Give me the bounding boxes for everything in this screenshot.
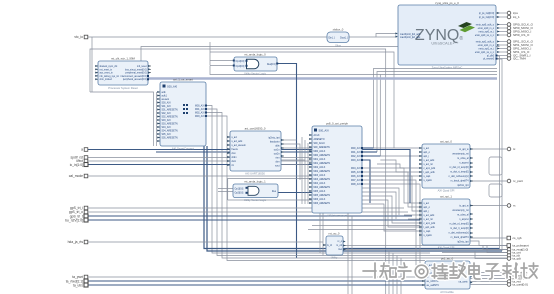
axi-interconnect U ps8_0_axi_periph (309, 122, 363, 218)
svg-text:rx_ttwck_qhw8T4: rx_ttwck_qhw8T4 (451, 236, 470, 239)
axi-uartlite U axi_uartlite_0 (422, 257, 470, 294)
wire interconnect M07 to uartlite (362, 180, 425, 265)
svg-text:M03_AXI: M03_AXI (351, 159, 361, 162)
svg-text:Op2[0:0]: Op2[0:0] (236, 66, 245, 68)
svg-text:S05_ARESETN: S05_ARESETN (162, 137, 179, 140)
wire uart A tx out (470, 148, 507, 150)
wire net sys_clk to ZYNQ maxihpm0_lpd_aclk (88, 36, 397, 38)
port SPI1_SS_O (507, 50, 530, 54)
svg-text:AXI UART16550: AXI UART16550 (245, 172, 265, 176)
svg-text:Utility Vector Logic: Utility Vector Logic (244, 198, 267, 202)
svg-text:emio_spi1_ss_o_n: emio_spi1_ss_o_n (475, 52, 495, 54)
wire port hdmi net (88, 241, 323, 243)
watermark glyph ji (521, 263, 538, 278)
svg-text:UltraSCALE+™: UltraSCALE+™ (431, 41, 458, 46)
svg-text:Op1[0:0]: Op1[0:0] (236, 61, 245, 63)
wire and1 input b (209, 52, 211, 66)
wire interconnect M04 to uart B aclk (362, 168, 422, 203)
wire smc M01_AXI (206, 109, 507, 256)
util-vector-logic U rst_anda_logic_1 (233, 180, 278, 203)
svg-text:s_cgwm: s_cgwm (424, 180, 433, 182)
svg-text:cal_mode: cal_mode (69, 174, 83, 178)
wire port gpio tri_o (88, 211, 408, 213)
svg-text:xlslice_0: xlslice_0 (333, 28, 344, 32)
svg-text:M01_AXI: M01_AXI (195, 108, 205, 111)
wire dark pair lower 1 (204, 146, 500, 249)
svg-text:s_axi_aclk: s_axi_aclk (424, 215, 436, 217)
port cs_rgb (507, 236, 522, 240)
svg-text:M01_ACLK: M01_ACLK (314, 158, 326, 161)
svg-text:ua_uarts: ua_uarts (459, 281, 469, 284)
wire zynq right pin stubs (497, 13, 507, 59)
port uart_irq right (507, 179, 523, 183)
svg-text:M08_AXI: M08_AXI (351, 183, 361, 186)
wire uart16550 to interconnect 1 (281, 147, 312, 149)
wire horizontal interconnect top (209, 42, 211, 52)
svg-text:S00_AXI: S00_AXI (167, 85, 178, 89)
svg-text:Utility: Utility (331, 256, 338, 260)
svg-text:M03_AXI: M03_AXI (195, 115, 205, 118)
wire uart B rx out (470, 205, 507, 207)
svg-text:cs_rgb: cs_rgb (513, 236, 522, 240)
wire port ivect net (88, 160, 312, 162)
wire bottom verticals (389, 251, 401, 294)
svg-text:Dout[..]: Dout[..] (340, 37, 348, 40)
wire B bottom jog 2 (475, 251, 507, 259)
wire port spdif net (88, 157, 312, 159)
wire port cluster feed 2 (487, 245, 507, 253)
svg-text:io_apt_w: io_apt_w (459, 148, 469, 151)
port I2C_SDA (507, 57, 526, 61)
svg-text:M06_ARESETN: M06_ARESETN (314, 202, 331, 205)
port gpio_tri_t (70, 214, 88, 218)
svg-text:M02_AXI: M02_AXI (351, 155, 361, 158)
svg-text:dcm_locked: dcm_locked (100, 79, 113, 81)
svg-text:baudoutn: baudoutn (270, 141, 280, 144)
wire and1 output net (277, 64, 297, 259)
svg-text:Zynq UltraScale+ MPSoC: Zynq UltraScale+ MPSoC (432, 66, 463, 70)
wire port ic_src dark bus (88, 164, 312, 166)
svg-text:n_dwt_nxtboemp[x]: n_dwt_nxtboemp[x] (449, 175, 469, 178)
svg-text:axi_spi_1: axi_spi_1 (440, 195, 452, 199)
pin arrows zynq (395, 12, 499, 53)
svg-text:slowest_sync_clk: slowest_sync_clk (100, 65, 119, 68)
wire stepped net 3 (362, 204, 422, 231)
port cal_mode (69, 174, 88, 178)
wire stepped net 1 (362, 196, 422, 223)
wire and2 input b (218, 191, 248, 193)
wire interconnect M03 (362, 160, 370, 203)
svg-text:n_dwt_nxtboemp[x]: n_dwt_nxtboemp[x] (449, 232, 469, 235)
svg-text:rx_pwrt: rx_pwrt (513, 179, 523, 183)
wire uartlite out 5 (470, 284, 507, 286)
port ja_pcbspwrt (507, 244, 529, 248)
wire B to port jog 1 (470, 241, 507, 246)
watermark glyph ke (503, 263, 518, 278)
svg-text:t_ap1_aclk: t_ap1_aclk (423, 171, 435, 174)
watermark glyph zhi (380, 263, 396, 279)
svg-text:M07_AXI: M07_AXI (351, 179, 361, 182)
svg-text:emio_spi1_sclk_o: emio_spi1_sclk_o (476, 42, 495, 44)
axi-uartlite U axi_uartA (419, 140, 473, 193)
svg-text:S05_AXI: S05_AXI (162, 133, 171, 136)
wire and2 output (278, 192, 312, 194)
svg-text:S02_ARESETN: S02_ARESETN (162, 116, 179, 119)
svg-text:S00_AXI: S00_AXI (162, 102, 171, 105)
port bb5 (507, 283, 528, 287)
wire lower crossing 1 (312, 225, 420, 227)
svg-text:ap1_o: ap1_o (424, 152, 431, 154)
svg-text:S00_ARESETN: S00_ARESETN (314, 146, 331, 149)
svg-text:pl_resetn0: pl_resetn0 (483, 58, 494, 61)
watermark glyph hu (398, 263, 411, 279)
wire dark pair lower 2 (207, 146, 502, 251)
pin arrows interconnect (309, 134, 311, 204)
svg-text:ctsn: ctsn (232, 152, 237, 155)
svg-text:aux_reset_in: aux_reset_in (100, 72, 114, 75)
port spdif_rst (71, 156, 88, 160)
wire port ua_rxd long (88, 280, 425, 282)
port bb1 (507, 271, 527, 275)
port rx right (507, 204, 516, 208)
wire uartlite out 4 (470, 281, 507, 283)
wire port gpio tri_t dark (88, 215, 412, 217)
wire interconnect M01 (362, 151, 377, 153)
wire loop frame B (489, 184, 502, 197)
svg-text:Res[0:0]: Res[0:0] (267, 64, 276, 66)
wire interconnect M09 (362, 188, 399, 215)
svg-text:rx_ttwck_qhw8T4: rx_ttwck_qhw8T4 (451, 180, 470, 183)
svg-text:maxihpm0_lpd_aclk: maxihpm0_lpd_aclk (400, 37, 421, 39)
wire vertical clk feed to rst block (91, 37, 93, 92)
svg-text:rx_dwt_rt_temp[0]: rx_dwt_rt_temp[0] (450, 227, 469, 230)
svg-text:ARESETN: ARESETN (314, 138, 325, 141)
wire peripheral_aresetn thick net (148, 77, 497, 79)
svg-text:emio_spi0_ss_o_n: emio_spi0_ss_o_n (475, 35, 495, 37)
svg-text:S00_AXI: S00_AXI (319, 129, 330, 133)
svg-text:hda_ja_rts: hda_ja_rts (68, 240, 84, 244)
wire port gpio tri_i (88, 207, 404, 209)
svg-text:rs_cdna_al: rs_cdna_al (457, 214, 469, 217)
wire interconnect M05 (362, 172, 422, 207)
wire uart16550 out 2 (281, 144, 300, 180)
svg-text:Utility Vector Logic: Utility Vector Logic (244, 72, 267, 76)
svg-text:emio_spi0_m_o: emio_spi0_m_o (478, 28, 495, 30)
svg-text:s_axi_aclk: s_axi_aclk (424, 160, 436, 162)
svg-text:s_capt: s_capt (424, 230, 431, 233)
util-reduced-logic U rst_au_0 (323, 232, 346, 260)
svg-text:interconnect_aresetn[0:0]: interconnect_aresetn[0:0] (121, 75, 147, 78)
port br2 (507, 251, 521, 255)
wire smc M02_AXI (206, 113, 507, 259)
svg-text:maxihpm0_fpd_aclk: maxihpm0_fpd_aclk (400, 34, 421, 36)
wire uart16550 to interconnect 3 (281, 164, 308, 166)
pin arrows rst_au (323, 240, 345, 250)
axi-uartlite U axi_uartB (419, 195, 473, 250)
wire port ua_pwrt long (88, 276, 425, 278)
wire cs port net (455, 237, 507, 239)
svg-text:S04_ARESETN: S04_ARESETN (162, 130, 179, 133)
wire and2 input a (218, 188, 248, 190)
wire interconnect M00 to dma (362, 147, 374, 149)
port irq0 right (507, 11, 518, 15)
svg-text:AXI Quad SPI: AXI Quad SPI (438, 189, 455, 193)
svg-text:ap1_o: ap1_o (424, 207, 431, 209)
svg-text:ap1_i: ap1_i (424, 211, 430, 213)
svg-text:s_axi: s_axi (424, 203, 430, 205)
svg-text:emio_spi1_m_o: emio_spi1_m_o (478, 45, 495, 47)
wire B feed stub 2 (408, 218, 422, 220)
svg-text:M00_AXI: M00_AXI (195, 104, 205, 107)
axi-uart16550 U axi_uart16550_0 (227, 127, 284, 176)
wire bottom cluster net (442, 252, 507, 254)
svg-text:wsnotempty_rst: wsnotempty_rst (452, 209, 468, 212)
wire aresetn branch to interconnect (156, 151, 312, 153)
wire upper frame second (141, 47, 500, 62)
port SPI1_MOSI_O (507, 43, 533, 47)
svg-text:M05_ACLK: M05_ACLK (314, 190, 326, 193)
svg-text:zynq_ultra_ps_e_0: zynq_ultra_ps_e_0 (435, 1, 459, 5)
svg-text:M01_AXI: M01_AXI (351, 151, 361, 154)
pin arrows rst_clk_wiz (95, 65, 150, 80)
wire and1 input a (210, 60, 241, 62)
wire uart16550 out 1 (281, 139, 297, 141)
svg-text:AXI Interconnect: AXI Interconnect (327, 214, 347, 218)
wire interconnect feed verticals (302, 137, 308, 204)
svg-text:ext_reset_in: ext_reset_in (100, 68, 113, 71)
svg-text:M00_ARESETN: M00_ARESETN (314, 154, 331, 157)
svg-text:M06_ACLK: M06_ACLK (314, 198, 326, 201)
svg-text:s_capt: s_capt (424, 175, 431, 178)
svg-text:t_ap1_aclk: t_ap1_aclk (423, 226, 435, 229)
svg-text:s_cgwm: s_cgwm (424, 235, 433, 237)
wire pl_resetn right column (497, 59, 502, 251)
svg-text:M02_ARESETN: M02_ARESETN (314, 170, 331, 173)
xlslice U xlslice_0 (327, 28, 349, 48)
svg-text:au_uaRSTC: au_uaRSTC (427, 285, 440, 287)
wire uartlite out 1 (470, 268, 507, 273)
smartconnect U axi_smc (157, 78, 207, 151)
svg-text:M03_ARESETN: M03_ARESETN (314, 178, 331, 181)
svg-text:out1n: out1n (274, 149, 280, 152)
port bb3 (507, 277, 525, 281)
svg-text:s_axi: s_axi (232, 137, 238, 139)
svg-text:M05_ARESETN: M05_ARESETN (314, 194, 331, 197)
svg-text:S01_ARESETN: S01_ARESETN (162, 109, 179, 112)
wire frame around and2 (228, 179, 312, 201)
wire smc M00_AXI (206, 106, 430, 254)
pin arrows uartlite (422, 264, 472, 286)
wire big block bottom drop 2 (322, 180, 324, 256)
wire zynq bottom route 1 (374, 69, 498, 149)
svg-text:rx_o: rx_o (338, 240, 343, 243)
port hdmi_ja_rts (68, 240, 88, 244)
watermark glyph pu (432, 264, 448, 279)
wire resetn distribution vertical (156, 92, 158, 146)
port SPI0_MOSI_O (507, 26, 533, 30)
svg-text:emio_spi0_m_i: emio_spi0_m_i (479, 32, 495, 34)
wire interconnect M10 (362, 192, 396, 219)
port br4 (507, 257, 521, 261)
svg-text:n_acpovt: n_acpovt (459, 218, 469, 221)
port bu_n2v (65, 218, 88, 222)
svg-text:emio_spi1_m_i: emio_spi1_m_i (479, 49, 495, 51)
port gpio_tri_i (70, 206, 88, 210)
svg-text:ap1_i: ap1_i (424, 156, 430, 158)
svg-text:s_axi_rst: s_axi_rst (424, 163, 434, 166)
svg-text:M01_ARESETN: M01_ARESETN (314, 162, 331, 165)
wire B feed stub 1 (404, 214, 422, 216)
svg-text:n_acpovt: n_acpovt (459, 162, 469, 165)
svg-text:rx_dwt_rd_temp[0]: rx_dwt_rd_temp[0] (449, 223, 468, 226)
svg-text:s_axi_aresetn: s_axi_aresetn (232, 144, 247, 147)
svg-text:rst_au_0: rst_au_0 (329, 232, 340, 236)
wire ja port net (346, 245, 507, 247)
port br3 (507, 254, 520, 258)
port SPI0_SCLK_O (507, 23, 533, 27)
wire and2 lower rail (228, 199, 312, 201)
port a (81, 148, 88, 152)
svg-text:AXI Uartlite: AXI Uartlite (440, 290, 454, 294)
port SPI0_MISO_I (507, 30, 531, 34)
svg-text:pl_clk0: pl_clk0 (487, 56, 495, 58)
svg-text:Slice: Slice (335, 44, 341, 48)
svg-text:wsnotempty_rst: wsnotempty_rst (452, 153, 468, 156)
svg-text:M05_AXI: M05_AXI (351, 171, 361, 174)
svg-text:ta_uart[0:0]: ta_uart[0:0] (513, 283, 528, 287)
port SPI1_MISO_I (507, 47, 531, 51)
svg-text:Processor System Reset: Processor System Reset (108, 86, 138, 90)
svg-text:M00_AXI: M00_AXI (351, 147, 361, 150)
wire interconnect M02 (362, 155, 380, 157)
wire uartlite out 2 (470, 275, 507, 277)
svg-text:ACLK: ACLK (314, 134, 320, 137)
port tx right (507, 147, 516, 151)
svg-text:rst_clk_wiz_1_99M: rst_clk_wiz_1_99M (111, 57, 135, 61)
svg-text:rst_anda_logic_1: rst_anda_logic_1 (244, 180, 266, 184)
port SPI1_SCLK_O (507, 40, 533, 44)
svg-text:pl_ps_irq1[0:0]: pl_ps_irq1[0:0] (479, 16, 494, 19)
svg-text:S00_ACLK: S00_ACLK (314, 142, 326, 145)
svg-text:ip2intc_irpt: ip2intc_irpt (268, 137, 279, 140)
watermark glyph at (415, 265, 428, 278)
wire port ua_txd long (88, 284, 425, 286)
wire interconnect M06 (362, 176, 422, 211)
svg-text:AXI SmartConnect: AXI SmartConnect (172, 147, 195, 151)
svg-text:aresetn: aresetn (162, 98, 170, 101)
svg-text:SPI0_CS_O: SPI0_CS_O (513, 33, 530, 37)
wire big block bottom drop 3 (347, 213, 349, 294)
svg-text:s_axi_rst: s_axi_rst (424, 218, 434, 221)
svg-text:pl_ps_irq0[0:0]: pl_ps_irq0[0:0] (479, 12, 494, 15)
svg-text:c_ap1_pclk: c_ap1_pclk (424, 223, 436, 225)
svg-text:c_ap1_pclk: c_ap1_pclk (424, 168, 436, 170)
wire and1 input b horizontal (210, 65, 241, 67)
svg-text:io_apt_w: io_apt_w (459, 205, 469, 208)
wire uart A irq out (470, 180, 507, 182)
svg-text:rs_cdna_al: rs_cdna_al (457, 157, 469, 160)
svg-text:s_axi: s_axi (424, 148, 430, 150)
port ua_txd (73, 283, 88, 287)
svg-text:Op1[0:0]: Op1[0:0] (235, 189, 244, 191)
watermark glyph zi (486, 264, 499, 279)
wire stepped net 2 (362, 200, 422, 227)
svg-text:S03_AXI: S03_AXI (162, 119, 171, 122)
svg-text:freeze: freeze (232, 148, 239, 151)
svg-text:rx_o2: rx_o2 (336, 244, 342, 247)
port ua_rxd (66, 279, 88, 283)
svg-text:ps8_0_axi_periph: ps8_0_axi_periph (326, 122, 349, 126)
svg-text:ip2intc_irpt: ip2intc_irpt (457, 184, 468, 187)
wire pl_clk0 right column (497, 56, 500, 249)
svg-text:rx_dwt_rd_temp[0]: rx_dwt_rd_temp[0] (449, 166, 468, 169)
watermark zhihu mark (363, 263, 376, 278)
wire port cluster feed 1 (483, 245, 507, 250)
port bb2 (507, 274, 527, 278)
wire frame pl_resetn0 outer (90, 49, 386, 294)
svg-text:mb_reset: mb_reset (137, 65, 147, 68)
svg-text:I2C_TMH: I2C_TMH (513, 57, 526, 61)
svg-text:Din[..]: Din[..] (329, 38, 335, 40)
svg-text:a: a (81, 148, 83, 152)
svg-text:tx_i2: tx_i2 (327, 244, 333, 247)
port SPI0_SS_O (507, 33, 530, 37)
wire uartlite out 3 (470, 278, 507, 280)
proc-sys-reset U rst_clk_wiz_1_99M (95, 57, 151, 91)
wire big block bottom drop 4 (351, 216, 353, 294)
port ivect (76, 159, 88, 163)
watermark glyph dian (469, 263, 480, 279)
svg-text:S04_AXI: S04_AXI (162, 126, 171, 129)
svg-text:rst_anda_logic_0: rst_anda_logic_0 (244, 53, 266, 57)
svg-text:M02_AXI: M02_AXI (195, 111, 205, 114)
svg-text:axi_uart16550_0: axi_uart16550_0 (245, 127, 266, 131)
pin arrows uart16550 (227, 136, 283, 166)
svg-text:M03_ACLK: M03_ACLK (314, 174, 326, 177)
svg-text:bus_struct_reset[0:0]: bus_struct_reset[0:0] (125, 68, 147, 71)
wire rst_au out net (346, 249, 507, 251)
svg-text:M04_ACLK: M04_ACLK (314, 182, 326, 185)
svg-text:rx_dwt_rt_temp[0]: rx_dwt_rt_temp[0] (450, 171, 469, 174)
wire port cal_mode net (88, 175, 422, 177)
wire A feed step 1 (377, 164, 422, 168)
svg-text:ta_qdt: ta_qdt (513, 257, 522, 261)
port br1 (507, 248, 528, 252)
wire smc M03_AXI (206, 116, 425, 261)
port irq1 right (507, 15, 520, 19)
svg-text:S02_AXI: S02_AXI (162, 112, 171, 115)
watermark glyph zhi2 (450, 263, 466, 278)
port ua_pwrt (72, 275, 88, 279)
svg-text:M00_ACLK: M00_ACLK (314, 150, 326, 153)
svg-text:peripheral_aresetn[0:0]: peripheral_aresetn[0:0] (123, 78, 147, 81)
port bb4 (507, 280, 521, 284)
pin arrows axi_spi_0 (419, 147, 472, 182)
svg-text:AXI Quad SPI: AXI Quad SPI (438, 246, 455, 250)
ZYNQ MPSoC U zynq_ultra_ps_e_0 (398, 1, 498, 70)
svg-text:S01_AXI: S01_AXI (162, 105, 171, 108)
wire frame inner top (210, 52, 394, 148)
svg-text:M04_AXI: M04_AXI (351, 167, 361, 170)
wire A feed step 2 (380, 160, 422, 172)
svg-text:ic_in[1:0]: ic_in[1:0] (70, 163, 83, 167)
svg-text:M06_AXI: M06_AXI (351, 175, 361, 178)
svg-text:vtc_io: vtc_io (74, 35, 83, 39)
svg-text:bu_n2V[1:0]: bu_n2V[1:0] (65, 218, 83, 222)
port gpio_tri_o (69, 210, 88, 214)
wire clk distribution to smartconnect (90, 92, 154, 146)
svg-text:irq_1: irq_1 (513, 15, 520, 19)
